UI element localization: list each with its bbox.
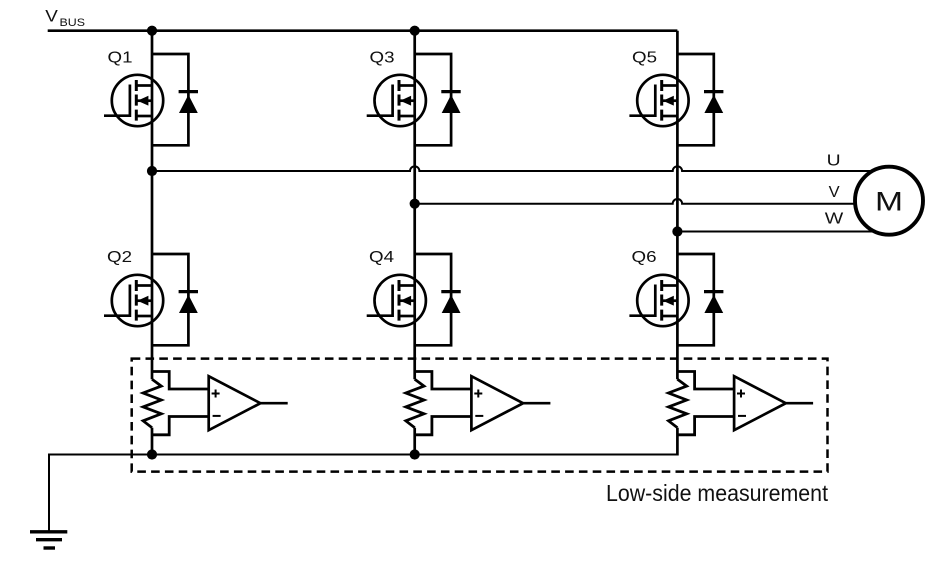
junction: phase U / leg1 <box>147 166 157 176</box>
junction: VBUS / leg2 <box>410 26 420 36</box>
svg-text:V: V <box>45 7 58 25</box>
svg-text:W: W <box>825 211 845 228</box>
transistor Q1 <box>104 75 163 126</box>
svg-text:Q2: Q2 <box>107 249 132 266</box>
junction: ground bus / leg2 <box>410 449 420 459</box>
wire: ground bus <box>49 455 677 531</box>
body diode of Q6 <box>677 254 723 345</box>
junction: ground bus / leg1 <box>147 449 157 459</box>
svg-text:M: M <box>875 186 903 216</box>
transistor Q6 <box>629 275 688 326</box>
wire: phase W <box>677 231 872 233</box>
svg-text:V: V <box>829 184 840 201</box>
transistor Q5 <box>629 75 688 126</box>
body diode of Q4 <box>415 254 461 345</box>
op-amp U1 (with input tap wires) <box>152 372 288 435</box>
op-amp U2 (with input tap wires) <box>415 372 551 435</box>
svg-text:Q4: Q4 <box>369 249 394 266</box>
junction: phase W / leg3 <box>672 226 682 236</box>
wire: phase leg 1 (Q1/Q2 half-bridge) <box>151 31 154 380</box>
svg-text:Q6: Q6 <box>632 249 657 266</box>
wire: phase leg 3 (Q5/Q6 half-bridge) <box>676 31 679 380</box>
op-amp U3 (with input tap wires) <box>677 372 813 435</box>
motor M <box>855 167 923 235</box>
svg-text:BUS: BUS <box>60 17 86 29</box>
svg-text:Q5: Q5 <box>632 49 657 66</box>
junction: phase V / leg2 <box>410 199 420 209</box>
dashed box: low-side measurement <box>132 359 828 472</box>
wire: phase leg 2 (Q3/Q4 half-bridge) <box>413 31 416 380</box>
wire: phase U (with hops over leg2 and leg3) <box>152 166 874 171</box>
svg-text:Q3: Q3 <box>370 49 395 66</box>
svg-text:Low-side measurement: Low-side measurement <box>606 480 828 506</box>
body diode of Q1 <box>152 54 198 145</box>
shunt resistor R3 <box>669 379 687 455</box>
junction: VBUS / leg1 <box>147 26 157 36</box>
transistor Q3 <box>367 75 426 126</box>
svg-text:U: U <box>827 153 841 170</box>
shunt resistor R2 <box>406 379 424 455</box>
ground symbol <box>30 532 67 548</box>
transistor Q4 <box>367 275 426 326</box>
body diode of Q2 <box>152 254 198 345</box>
body diode of Q5 <box>677 54 723 145</box>
shunt resistor R1 <box>143 379 161 455</box>
wire: VBUS top bus <box>48 29 678 32</box>
wire: phase V (with hop over leg3) <box>415 199 856 204</box>
transistor Q2 <box>104 275 163 326</box>
body diode of Q3 <box>415 54 461 145</box>
svg-text:Q1: Q1 <box>108 49 133 66</box>
